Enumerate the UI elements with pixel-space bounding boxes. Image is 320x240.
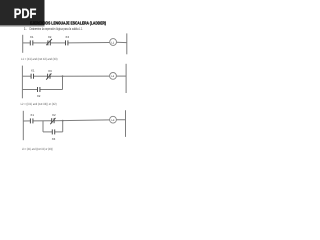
wire <box>50 75 110 77</box>
rung 1 wire <box>23 42 31 44</box>
coil L2 <box>110 73 117 80</box>
wire <box>55 131 63 133</box>
parallel branch left drop <box>42 121 44 132</box>
rung 2 left rail <box>21 66 23 99</box>
rung 2 right rail <box>125 64 127 93</box>
wire <box>116 41 127 43</box>
rung 3 right rail <box>125 110 127 137</box>
wire <box>50 42 65 44</box>
contact X3 rung1 <box>65 40 67 45</box>
wire <box>54 119 110 122</box>
svg-text:X1: X1 <box>30 113 34 117</box>
parallel branch bottom wire <box>43 131 52 133</box>
coil L1 <box>110 39 117 46</box>
wire <box>40 89 63 91</box>
svg-text:X3: X3 <box>52 137 56 141</box>
svg-text:X2: X2 <box>48 35 52 39</box>
svg-text:Determine la expresión lógica: Determine la expresión lógica para la sa… <box>30 27 83 31</box>
contact X1 rung3 <box>29 118 31 123</box>
svg-text:X1: X1 <box>30 35 34 39</box>
svg-text:L3 = (X1) and ((not X2) or (X3: L3 = (X1) and ((not X2) or (X3)) <box>22 147 53 151</box>
parallel branch right riser <box>62 121 64 132</box>
svg-text:PDF: PDF <box>14 6 37 21</box>
wire <box>68 42 110 44</box>
svg-text:X3: X3 <box>48 69 52 73</box>
svg-text:X1: X1 <box>31 69 35 73</box>
rung 2 top wire <box>22 75 31 77</box>
junction rung3 <box>62 120 64 122</box>
rung 1 right rail <box>126 33 128 54</box>
wire <box>33 42 48 44</box>
wire <box>116 75 126 77</box>
rung 3 left rail <box>22 111 24 140</box>
svg-text:X2: X2 <box>37 94 41 98</box>
svg-text:EJERCICIOS LENGUAJE ESCALERA (: EJERCICIOS LENGUAJE ESCALERA (LADDER) <box>30 21 106 26</box>
wire <box>116 119 125 121</box>
coil L3 <box>110 116 117 123</box>
rung 2 branch wire <box>22 89 37 91</box>
contact X3 rung3 <box>51 129 53 134</box>
wire <box>33 120 52 122</box>
wire <box>34 75 48 77</box>
svg-text:L1 = (X1) and (not X2) and (X3: L1 = (X1) and (not X2) and (X3) <box>21 57 57 61</box>
svg-text:L2 = ((X1) and (not X3)) or (X: L2 = ((X1) and (not X3)) or (X2) <box>21 102 57 106</box>
rung 3 top wire <box>23 120 30 122</box>
junction rung2 <box>62 75 64 77</box>
contact X2 rung3 (NC) <box>51 118 53 123</box>
PDF badge <box>0 0 45 25</box>
contact X1 rung1 <box>29 40 31 45</box>
svg-text:X2: X2 <box>52 113 56 117</box>
branch riser <box>62 76 64 89</box>
contact X2 rung2 <box>37 87 39 92</box>
svg-text:X3: X3 <box>65 35 69 39</box>
contact X1 rung2 <box>30 74 32 79</box>
svg-text:1.: 1. <box>24 27 27 31</box>
contact X2 rung1 (NC) <box>47 40 49 45</box>
contact X3 rung2 (NC) <box>47 74 49 79</box>
rung 1 left rail <box>22 35 24 53</box>
